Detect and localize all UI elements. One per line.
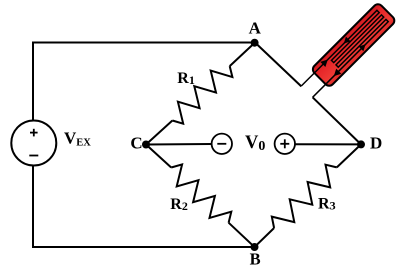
wire gauge lead 2 to D: [313, 97, 361, 144]
wire bottom loop: [33, 166, 255, 248]
gauge serpentine grid: [315, 10, 388, 83]
wire D to R3: [337, 144, 361, 167]
svg-text:R3: R3: [318, 196, 336, 213]
strain gauge G1: [298, 2, 397, 101]
node B: [251, 243, 259, 251]
wire A to gauge lead 1: [255, 43, 301, 87]
wire R2 to B: [229, 223, 255, 247]
resistor R1: [172, 66, 232, 124]
node C: [142, 141, 150, 149]
wire C to R2: [146, 145, 171, 168]
wire C to voltmeter minus: [146, 143, 212, 146]
svg-text:R1: R1: [177, 70, 195, 87]
node A: [251, 39, 259, 47]
voltage source VEX: [11, 121, 56, 166]
voltmeter plus terminal: [275, 134, 295, 154]
voltmeter minus terminal: [212, 134, 232, 154]
resistor R3: [272, 165, 337, 228]
svg-text:A: A: [249, 18, 262, 37]
svg-text:C: C: [130, 133, 142, 152]
wire voltmeter plus to D: [295, 143, 361, 145]
wire A to R1: [230, 43, 255, 67]
gauge lead 1: [301, 72, 315, 86]
svg-text:B: B: [250, 250, 261, 269]
wire R1 to C: [146, 121, 172, 145]
wire R3 to B: [255, 228, 275, 247]
svg-text:R2: R2: [170, 196, 188, 213]
gauge lead 2: [313, 84, 327, 98]
resistor R2: [171, 164, 231, 222]
source polarity marks: [29, 129, 38, 156]
svg-text:D: D: [370, 134, 382, 153]
minus terminal mark: [217, 143, 226, 145]
node D: [357, 140, 365, 148]
gauge current arrows: [320, 30, 368, 78]
wire top loop: [33, 43, 255, 121]
plus terminal mark: [280, 143, 289, 145]
